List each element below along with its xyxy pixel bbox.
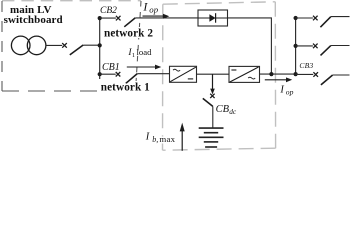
isolator blade CBdc (203, 98, 213, 106)
svg-text:op: op (149, 5, 158, 15)
svg-text:load: load (137, 47, 153, 57)
svg-text:network 1: network 1 (101, 82, 150, 94)
node: load bus top (294, 16, 298, 20)
load feeder 3: wire out (333, 74, 350, 76)
breaker cross CBdc (210, 94, 214, 98)
static bypass switch U3 (diode box) (198, 10, 228, 26)
node: bypass/inverter output junction (269, 72, 273, 76)
svg-text:op: op (286, 88, 294, 97)
svg-text:switchboard: switchboard (4, 14, 63, 26)
wire transformer to breaker cross (46, 44, 62, 46)
battery B1 (199, 128, 224, 147)
node: bus/CB1 junction (98, 72, 102, 76)
wire CB2 to bypass input (135, 17, 198, 19)
inverter U2 (DC/AC converter) (229, 66, 260, 82)
load feeder 3: breaker cross (313, 72, 318, 77)
UPS gray dashed boundary box (163, 2, 276, 150)
load feeder 3: wire (296, 73, 314, 75)
svg-text:CB2: CB2 (100, 6, 117, 16)
isolator blade CB1 (126, 74, 138, 84)
node: load bus bottom (294, 72, 298, 76)
wire bus to CB2 cross (100, 17, 116, 19)
breaker cross (transformer feed) (62, 43, 67, 48)
wire CB1 to rectifier input (137, 73, 169, 75)
svg-text:network 2: network 2 (104, 28, 153, 40)
node: bus/transformer junction (98, 43, 102, 47)
current arrow I1 load (127, 66, 156, 68)
wire bypass output, corner down to inverter output node (228, 18, 272, 74)
load feeder 1: wire out (331, 16, 350, 18)
svg-text:1: 1 (132, 52, 135, 59)
load feeder 2: wire (296, 45, 313, 47)
svg-text:CB3: CB3 (299, 61, 313, 70)
node: load bus middle (294, 44, 298, 48)
breaker cross CB2 (116, 16, 121, 21)
svg-text:dc: dc (229, 107, 237, 116)
wire inverter output to load bus (260, 73, 296, 75)
node: bus/CB2 junction (98, 16, 102, 20)
rectifier U1 (AC/DC converter) (170, 66, 197, 82)
svg-text:b,: b, (152, 135, 158, 144)
isolator blade (transformer feed) (70, 45, 83, 55)
current arrow Iop (top) (143, 15, 164, 17)
load feeder 1: breaker cross (313, 16, 318, 21)
load feeder 2: isolator blade (321, 46, 331, 56)
svg-text:max: max (159, 134, 175, 144)
load feeder 2: wire out (331, 45, 350, 47)
main LV switchboard dashed boundary box (2, 1, 141, 91)
current arrow Iop (output) (265, 79, 287, 81)
wire blade to battery (212, 106, 214, 128)
current arrow Ib,max (up) (181, 131, 183, 151)
svg-text:I: I (145, 131, 150, 142)
breaker cross CB1 (116, 72, 121, 77)
wire blade to bus (83, 44, 100, 46)
isolator blade CB2 (124, 18, 135, 27)
svg-text:CB: CB (216, 104, 230, 115)
load bus (right vertical) (295, 18, 297, 74)
svg-text:CB1: CB1 (102, 62, 120, 73)
wire bus to CB1 cross (100, 73, 116, 75)
svg-text:I: I (279, 84, 284, 95)
load feeder 2: breaker cross (313, 44, 318, 49)
switchboard bus (vertical) (99, 18, 101, 79)
load feeder 1: wire (296, 17, 313, 19)
DC link wire rectifier to inverter (197, 73, 230, 75)
battery tap: DC bus down arrow (212, 74, 214, 89)
load feeder 1: isolator blade (320, 17, 330, 28)
load feeder 3: isolator blade (321, 75, 333, 85)
transformer T1 (main LV supply) (11, 36, 46, 55)
